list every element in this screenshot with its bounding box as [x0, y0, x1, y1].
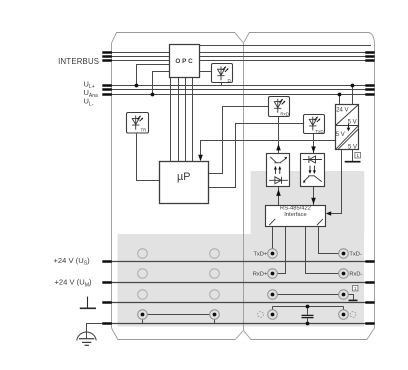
terminal circle row1 left a [138, 249, 220, 300]
svg-text:5 V: 5 V [348, 144, 357, 150]
shield clamp label 1 box (row 3) [353, 286, 358, 293]
LED indicator D [212, 64, 233, 83]
phototransistor [304, 176, 322, 182]
junction UL- / converter input [338, 93, 342, 97]
svg-text:5 V: 5 V [336, 132, 345, 138]
wire OPC supply branch from UL- [153, 72, 170, 95]
capacitor C1 [302, 315, 314, 317]
LED diode [269, 177, 288, 184]
IC U1 OPC protocol chip [170, 45, 200, 78]
LED diode [303, 156, 322, 163]
LED indicator TxD [304, 115, 325, 134]
terminal circle TxD+ [268, 249, 278, 259]
wire earth lead to PE symbol [87, 324, 112, 339]
wire OPC to LED D [200, 71, 212, 73]
wire INTERBUS line 2 [112, 56, 375, 58]
arrow optocoupler U2 down into RS-485 [311, 198, 316, 205]
wire converter isolated 5V to RS-485 interface [331, 150, 342, 214]
svg-text:+24 V (UM): +24 V (UM) [55, 278, 93, 289]
junction UL+ / OPC branch [135, 84, 139, 88]
wire shield terminal row 3 link [277, 294, 338, 296]
wire RS-485 pin to TxD+ [272, 227, 274, 250]
wire 5V supply from converter to uP [201, 141, 336, 156]
LED indicator TR [127, 113, 149, 134]
converter internal flow arrow [348, 124, 350, 128]
wire converter input from UL+ [352, 86, 354, 105]
shaded RS-485 section background [251, 171, 365, 235]
terminal circle row2 left a [138, 269, 148, 279]
terminal circle row4 right a [268, 310, 278, 320]
wire PE row 4 right link [273, 307, 344, 310]
terminal circle row4 left a (PE) [138, 249, 349, 320]
junction capacitor top [306, 305, 310, 309]
terminal circle row4 right b [339, 310, 349, 320]
wire UL- rail [112, 94, 375, 96]
auxiliary dashed circle right [350, 312, 356, 318]
svg-text:RxD+: RxD+ [253, 271, 268, 277]
wire OPC pin 3 to uP [185, 78, 187, 162]
LED indicator RxD [269, 97, 290, 117]
wire OPC pin 2 to uP [178, 78, 180, 162]
terminal circle RxD+ [268, 269, 278, 279]
phototransistor [270, 157, 286, 163]
power rail +24V UM [112, 282, 375, 284]
wire OPC pin 1 to uP [170, 78, 172, 162]
light arrows [275, 169, 279, 174]
svg-text:TxD-: TxD- [349, 251, 361, 257]
arrow 5V into uP [198, 155, 203, 161]
wire converter input from UL- [339, 95, 341, 105]
ground symbol (functional earth) at left [80, 297, 96, 309]
PE earth symbol [77, 332, 96, 345]
terminal circle TxD- [339, 249, 349, 259]
svg-text:TR: TR [140, 128, 146, 133]
module outline: right terminal housing [244, 33, 375, 340]
svg-text:RxD-: RxD- [349, 271, 362, 277]
wire capacitor connection [307, 307, 309, 324]
svg-text:µP: µP [177, 171, 190, 183]
svg-text:1: 1 [354, 286, 357, 292]
junction UL+ / converter input [351, 84, 355, 88]
svg-text:+24 V (US): +24 V (US) [54, 256, 91, 267]
wire PE terminal drops left module [143, 319, 215, 323]
ground bar converter (functional earth) [345, 161, 361, 163]
wire LED D to UL+ [221, 83, 223, 86]
svg-text:RxD: RxD [280, 112, 289, 117]
wire OPC supply branch from UL+ [137, 65, 170, 86]
wire OPC pin 4 to uP [192, 78, 194, 162]
wire INTERBUS line 1 [87, 46, 375, 339]
wire optocoupler 2 to RS-485 interface [313, 187, 315, 206]
wire remote bus continuation from OPC to right edge [200, 45, 372, 47]
optocoupler OC2 (TxD path) [301, 154, 325, 187]
wire UL+ rail [112, 85, 375, 87]
svg-text:Interface: Interface [284, 212, 307, 218]
terminal circle row4 left b (PE) [210, 310, 220, 320]
junction capacitor / PE rail [306, 322, 310, 326]
power rail PE [112, 323, 375, 325]
junction UL- / OPC branch [151, 93, 155, 97]
wire converter ground pin [352, 150, 354, 162]
arrow RxD up to LED RxD [276, 144, 281, 151]
wire uP TxD output to LED TxD [209, 124, 304, 188]
wire LED TxD down to optocoupler 2 [313, 134, 315, 154]
IC U3 RS-485/422 interface [266, 206, 326, 227]
wire optocoupler 1 to RS-485 interface [278, 187, 280, 206]
arrow RS-485 up into optocoupler U1 [276, 189, 281, 196]
svg-text:INTERBUS: INTERBUS [58, 57, 99, 66]
shield clamp label 1 box (converter) [355, 152, 361, 159]
auxiliary dashed circle left [258, 312, 264, 318]
wire PE terminal row 4 left link [147, 314, 209, 316]
wire LED RxD down to optocoupler [278, 117, 280, 154]
terminal stubs right edge [365, 53, 374, 324]
terminal stubs left edge [102, 53, 112, 324]
terminal circle shield a [268, 290, 278, 300]
DC/DC converter 24V to 5V [336, 105, 359, 151]
terminal circle shield b [339, 290, 349, 300]
module outline: left terminal housing [112, 33, 243, 340]
wire INTERBUS line 3 [112, 60, 375, 62]
arrow isolated 5V into RS-485 right side [326, 211, 331, 216]
shaded terminal section background [118, 234, 364, 327]
wire LED TR to uP [137, 133, 160, 181]
arrow TxD down into optocoupler U2 [311, 146, 316, 153]
IC U2 microprocessor uP [160, 162, 209, 204]
wire shield terminal to functional earth [348, 295, 353, 300]
wire RS-485 pin to TxD- [319, 227, 339, 254]
terminal circle row2 left b [210, 269, 220, 279]
wire RS-485 pin to RxD+ [277, 227, 285, 274]
svg-text:TxD+: TxD+ [253, 251, 267, 257]
terminal circle row1 left b [210, 249, 220, 259]
light arrows [310, 166, 314, 171]
wire RS-485 pin to RxD- [306, 227, 339, 274]
svg-text:24 V: 24 V [336, 108, 348, 114]
svg-text:RS-485/422: RS-485/422 [280, 206, 311, 212]
terminal contact dots [141, 252, 346, 317]
svg-text:OPC: OPC [175, 58, 194, 65]
svg-text:1: 1 [356, 153, 359, 159]
optocoupler OC1 (RxD path) [267, 154, 290, 187]
wire uP RxD input via LED RxD [209, 107, 269, 174]
power rail +24V US [112, 262, 375, 324]
module divider line between the two housings [243, 42, 245, 331]
terminal circle row3 left b [210, 290, 220, 300]
terminal circle row3 left a [138, 290, 148, 300]
ground bar shield row 3 [349, 299, 358, 301]
svg-text:TxD: TxD [315, 129, 323, 134]
terminal circle RxD- [339, 269, 349, 279]
wire UAna rail [112, 89, 375, 91]
power rail GND [112, 302, 375, 304]
svg-text:D: D [228, 78, 231, 83]
